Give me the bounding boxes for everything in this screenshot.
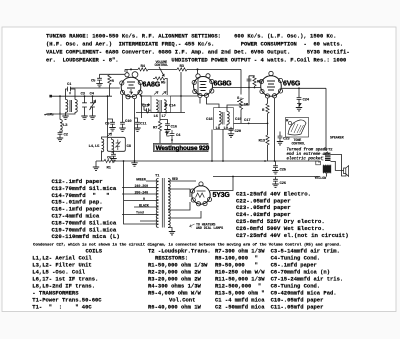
svg-text:T1- " : " 40C: T1- " : " 40C: [32, 304, 92, 311]
svg-text:RESISTORS:: RESISTORS:: [155, 255, 188, 262]
svg-text:6V6G: 6V6G: [283, 81, 301, 88]
oscillator coil L4 L5: [102, 96, 113, 161]
2nd IF transformer: [214, 108, 234, 130]
svg-text:C9-420mmfd mica Pad.: C9-420mmfd mica Pad.: [271, 290, 337, 297]
power transformer T1: [156, 179, 158, 228]
resistor R13: [266, 135, 269, 145]
svg-text:R13: R13: [259, 140, 266, 144]
ground under L1: [62, 116, 68, 119]
ground under C5: [96, 83, 102, 86]
volume control R5: [159, 67, 164, 76]
wire box to bus: [211, 130, 213, 162]
svg-text:YELLOW: YELLOW: [315, 177, 328, 181]
bus lower: [213, 176, 320, 178]
Westinghouse 920 box: [154, 143, 209, 151]
svg-text:R4-300 ohms 1/3W: R4-300 ohms 1/3W: [148, 283, 202, 290]
capacitor C26: [275, 177, 277, 178]
svg-text:R10-250 ohm W/W: R10-250 ohm W/W: [215, 269, 265, 276]
1st IF transformer: [151, 96, 171, 113]
svg-text:C16: C16: [171, 126, 178, 130]
header text block: [46, 33, 350, 64]
ground under C2: [57, 138, 63, 141]
svg-text:AND DIAL LAMPS: AND DIAL LAMPS: [196, 227, 223, 231]
svg-text:R6-40,000 ohm 1W: R6-40,000 ohm 1W: [148, 304, 202, 311]
parts table: [32, 248, 102, 311]
svg-text:C8-Tuning Cond.: C8-Tuning Cond.: [271, 283, 321, 290]
svg-text:R9-50,000 ": R9-50,000 ": [215, 262, 258, 269]
svg-text:R5-4,000 ohm W/W: R5-4,000 ohm W/W: [148, 290, 202, 297]
speaker: [344, 166, 349, 177]
capacitor C20: [229, 127, 234, 132]
svg-text:240-260: 240-260: [135, 185, 149, 189]
svg-text:er. LOUDSPEAKER - 8".: er. LOUDSPEAKER - 8". UNDISTORTED POWER …: [46, 57, 346, 64]
svg-text:TUNING RANGE: 1600-550 Kc/s. R: TUNING RANGE: 1600-550 Kc/s. R.F. ALIGNM…: [46, 33, 336, 40]
aerial coil L2: [75, 100, 77, 113]
svg-text:R3-20,000 ohm 2W: R3-20,000 ohm 2W: [148, 276, 202, 283]
svg-text:R11-50,000 1/3W: R11-50,000 1/3W: [215, 276, 265, 283]
wire diode line: [212, 87, 261, 89]
svg-text:R7-300 ohm 1/3W: R7-300 ohm 1/3W: [215, 248, 265, 255]
wire IF1 bottom crossing: [136, 112, 185, 114]
svg-text:6G8G: 6G8G: [214, 81, 233, 88]
svg-text:CONTROL: CONTROL: [155, 64, 169, 68]
wire heater run: [124, 161, 159, 224]
capacitor list C12-C20: [52, 178, 120, 240]
resistor R2 vertical: [108, 75, 111, 85]
svg-text:C24: C24: [303, 99, 310, 103]
svg-text:●40Mc: ●40Mc: [44, 114, 54, 118]
svg-text:L1,L2- Aerial Coil: L1,L2- Aerial Coil: [32, 255, 92, 262]
svg-text:COILS: COILS: [86, 248, 103, 255]
primary taps: [122, 181, 159, 221]
wire 6A8G top cap: [126, 69, 128, 72]
capacitor C25: [275, 161, 277, 164]
resistor R1: [104, 159, 114, 162]
aerial terminal: [49, 95, 52, 98]
svg-text:L4,L5 -Osc. Coil: L4,L5 -Osc. Coil: [32, 269, 86, 276]
svg-text:Westinghouse 920: Westinghouse 920: [156, 145, 210, 152]
svg-text:5Y3G: 5Y3G: [213, 192, 231, 199]
coil core lines: [70, 100, 72, 112]
svg-text:R2-20,000 ohm 2W: R2-20,000 ohm 2W: [148, 269, 202, 276]
wire 6V6G plate to right: [282, 87, 327, 89]
svg-text:Vol.Cont: Vol.Cont: [169, 297, 195, 304]
svg-text:C27-25mfd 40V el.(not in circu: C27-25mfd 40V el.(not in circuit): [236, 232, 349, 239]
wire top C5 branch: [100, 73, 125, 75]
svg-text:C7-15-24mmfd air tris.: C7-15-24mmfd air tris.: [271, 276, 344, 283]
capacitor C6: [111, 153, 116, 158]
svg-text:C18: C18: [206, 118, 213, 122]
ground under C4: [89, 116, 95, 119]
wire IF1 bottom: [159, 113, 161, 122]
svg-text:C11: C11: [140, 123, 147, 127]
svg-text:L4,L5: L4,L5: [89, 145, 101, 149]
aerial coil L1: [66, 100, 68, 113]
svg-text:T2 -Loudspkr.Trans.: T2 -Loudspkr.Trans.: [148, 248, 211, 255]
centre tap ground: [168, 228, 172, 232]
svg-text:C5-.1mfd paper: C5-.1mfd paper: [271, 262, 317, 269]
svg-text:C4-Tuning Cond.: C4-Tuning Cond.: [271, 255, 321, 262]
wire IF1 left return: [141, 96, 143, 118]
wire 6A8G pin down: [122, 95, 124, 121]
wire down from aerial junction: [50, 96, 60, 114]
svg-text:R13-5,000 ohm ": R13-5,000 ohm ": [215, 290, 265, 297]
capacitor list C21-C27: [236, 190, 349, 238]
trimmer C1: [66, 87, 76, 97]
junction dots bus: [134, 160, 136, 162]
ground under C3: [81, 116, 87, 119]
svg-text:C6-70mmfd mica (n): C6-70mmfd mica (n): [271, 269, 330, 276]
svg-text:C20: C20: [235, 130, 242, 134]
svg-text:6A8G: 6A8G: [143, 82, 161, 89]
svg-text:BLACK: BLACK: [139, 204, 150, 208]
svg-text:C26: C26: [280, 182, 287, 186]
svg-text:200-240: 200-240: [135, 191, 149, 195]
capacitor C16: [160, 120, 168, 123]
capacitor C15: [247, 77, 252, 82]
field coil: [323, 165, 331, 172]
resistor R4: [138, 68, 148, 71]
svg-text:C10-.05mfd paper: C10-.05mfd paper: [271, 297, 324, 304]
padder capacitor C9: [110, 121, 115, 126]
svg-text:R8-100,000 ": R8-100,000 ": [215, 255, 258, 262]
resistor R6: [240, 98, 242, 100]
tuning trimmer C3: [82, 96, 87, 116]
svg-text:RED: RED: [172, 178, 178, 182]
svg-text:L3,L2- Filter Unit: L3,L2- Filter Unit: [32, 262, 91, 269]
capacitor C2: [59, 112, 61, 119]
svg-text:R12-500,000 ": R12-500,000 ": [215, 283, 261, 290]
capacitor C10: [120, 121, 125, 126]
capacitor C23: [279, 132, 281, 135]
svg-text:SPEAKER: SPEAKER: [330, 137, 345, 141]
wire bus to field coil: [317, 161, 327, 177]
wire 6A8G cathode down: [134, 99, 136, 163]
bus B+: [114, 160, 317, 162]
switch S/W: [237, 98, 244, 101]
svg-text:C2 -50mmfd mica: C2 -50mmfd mica: [215, 304, 265, 311]
junction dots: [248, 87, 250, 89]
secondary taps: [168, 181, 201, 218]
resistor R3: [177, 68, 187, 71]
SCHEMATIC: [44, 61, 241, 171]
osc trimmer box C8: [107, 137, 125, 151]
ground cathode: [131, 163, 137, 166]
svg-text:L6,17- 1st IF trans.: L6,17- 1st IF trans.: [32, 276, 98, 283]
coil leads: [60, 96, 75, 116]
tube 5Y3G: [192, 186, 210, 204]
wire rectifier output: [193, 176, 234, 191]
wire 6G8G top cap: [197, 69, 199, 73]
svg-text:VALVE COMPLEMENT- 6A8G Convert: VALVE COMPLEMENT- 6A8G Converter. 6G8G I…: [46, 49, 350, 56]
dial lamp above box: [165, 130, 175, 143]
wire AVC: [234, 122, 268, 124]
connector: [316, 161, 321, 165]
tone control pictorial: [286, 118, 309, 138]
coil L3: [60, 120, 62, 133]
wire aerial to grid: [52, 88, 120, 96]
tube 6V6G: [261, 76, 282, 97]
svg-text:C14: C14: [169, 104, 176, 108]
svg-text:(H.F. Osc. and Aer.) INTERMED: (H.F. Osc. and Aer.) INTERMEDIATE FREQ.-…: [46, 41, 343, 48]
svg-text:C1 -4 mmfd mica: C1 -4 mmfd mica: [215, 297, 265, 304]
capacitor C24: [298, 88, 300, 96]
svg-text:C23: C23: [283, 138, 290, 142]
svg-text:C25: C25: [280, 168, 287, 172]
svg-text:end in extreme ad-: end in extreme ad-: [287, 152, 330, 157]
svg-text:C17: C17: [244, 119, 251, 123]
top bus wire: [125, 69, 241, 94]
wire T2 to voice coil: [331, 155, 347, 177]
wire 6V6G cathode down: [268, 98, 275, 161]
svg-text:0: 0: [143, 198, 145, 202]
capacitor C5: [97, 77, 102, 82]
svg-text:T1-Power Trans.50-60C: T1-Power Trans.50-60C: [32, 297, 102, 304]
tube 6G8G: [194, 77, 213, 96]
wire right vertical: [325, 88, 327, 151]
svg-text:C10: C10: [125, 120, 132, 124]
svg-text:CONTROL: CONTROL: [292, 143, 306, 147]
svg-text:C20-110mmfd mica (L): C20-110mmfd mica (L): [52, 233, 120, 240]
svg-text:L8,L9-2nd IF trans.: L8,L9-2nd IF trans.: [32, 283, 95, 290]
tube 6A8G: [121, 77, 141, 97]
wire 6G8G cathode down: [200, 97, 219, 107]
capacitor C12: [141, 104, 151, 112]
resistor R7: [158, 121, 161, 131]
tuning condenser C4: [90, 96, 96, 116]
resistor R8: [253, 76, 256, 86]
svg-text:C11-.05mfd paper: C11-.05mfd paper: [271, 304, 324, 311]
svg-text:C3-5-14mmfd air trim.: C3-5-14mmfd air trim.: [271, 248, 340, 255]
svg-text:GREEN: GREEN: [136, 179, 146, 183]
svg-text:- TRANSFORMERS: - TRANSFORMERS: [32, 290, 79, 297]
svg-text:Tond: Tond: [136, 211, 144, 216]
wire IF1 plate feed: [140, 72, 198, 113]
resistor R9 vertical: [266, 104, 269, 114]
ground osc: [96, 161, 104, 167]
svg-text:R1-50,000 ohm 1/3W: R1-50,000 ohm 1/3W: [148, 262, 208, 269]
junction dots top bus: [130, 68, 132, 70]
svg-text:Turned from spade: Turned from spade: [287, 148, 329, 153]
capacitor C11: [135, 118, 138, 121]
